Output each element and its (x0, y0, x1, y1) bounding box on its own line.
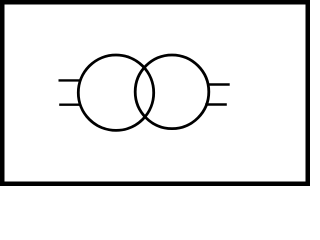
wire: secondary top terminal (208, 83, 230, 85)
wire: primary top terminal (59, 79, 81, 81)
transformer T1 primary winding (left circle) (78, 55, 153, 130)
wire: primary bottom terminal (59, 103, 81, 105)
transformer T1 secondary winding (right circle) (135, 55, 209, 129)
wire: secondary bottom terminal (205, 103, 227, 105)
